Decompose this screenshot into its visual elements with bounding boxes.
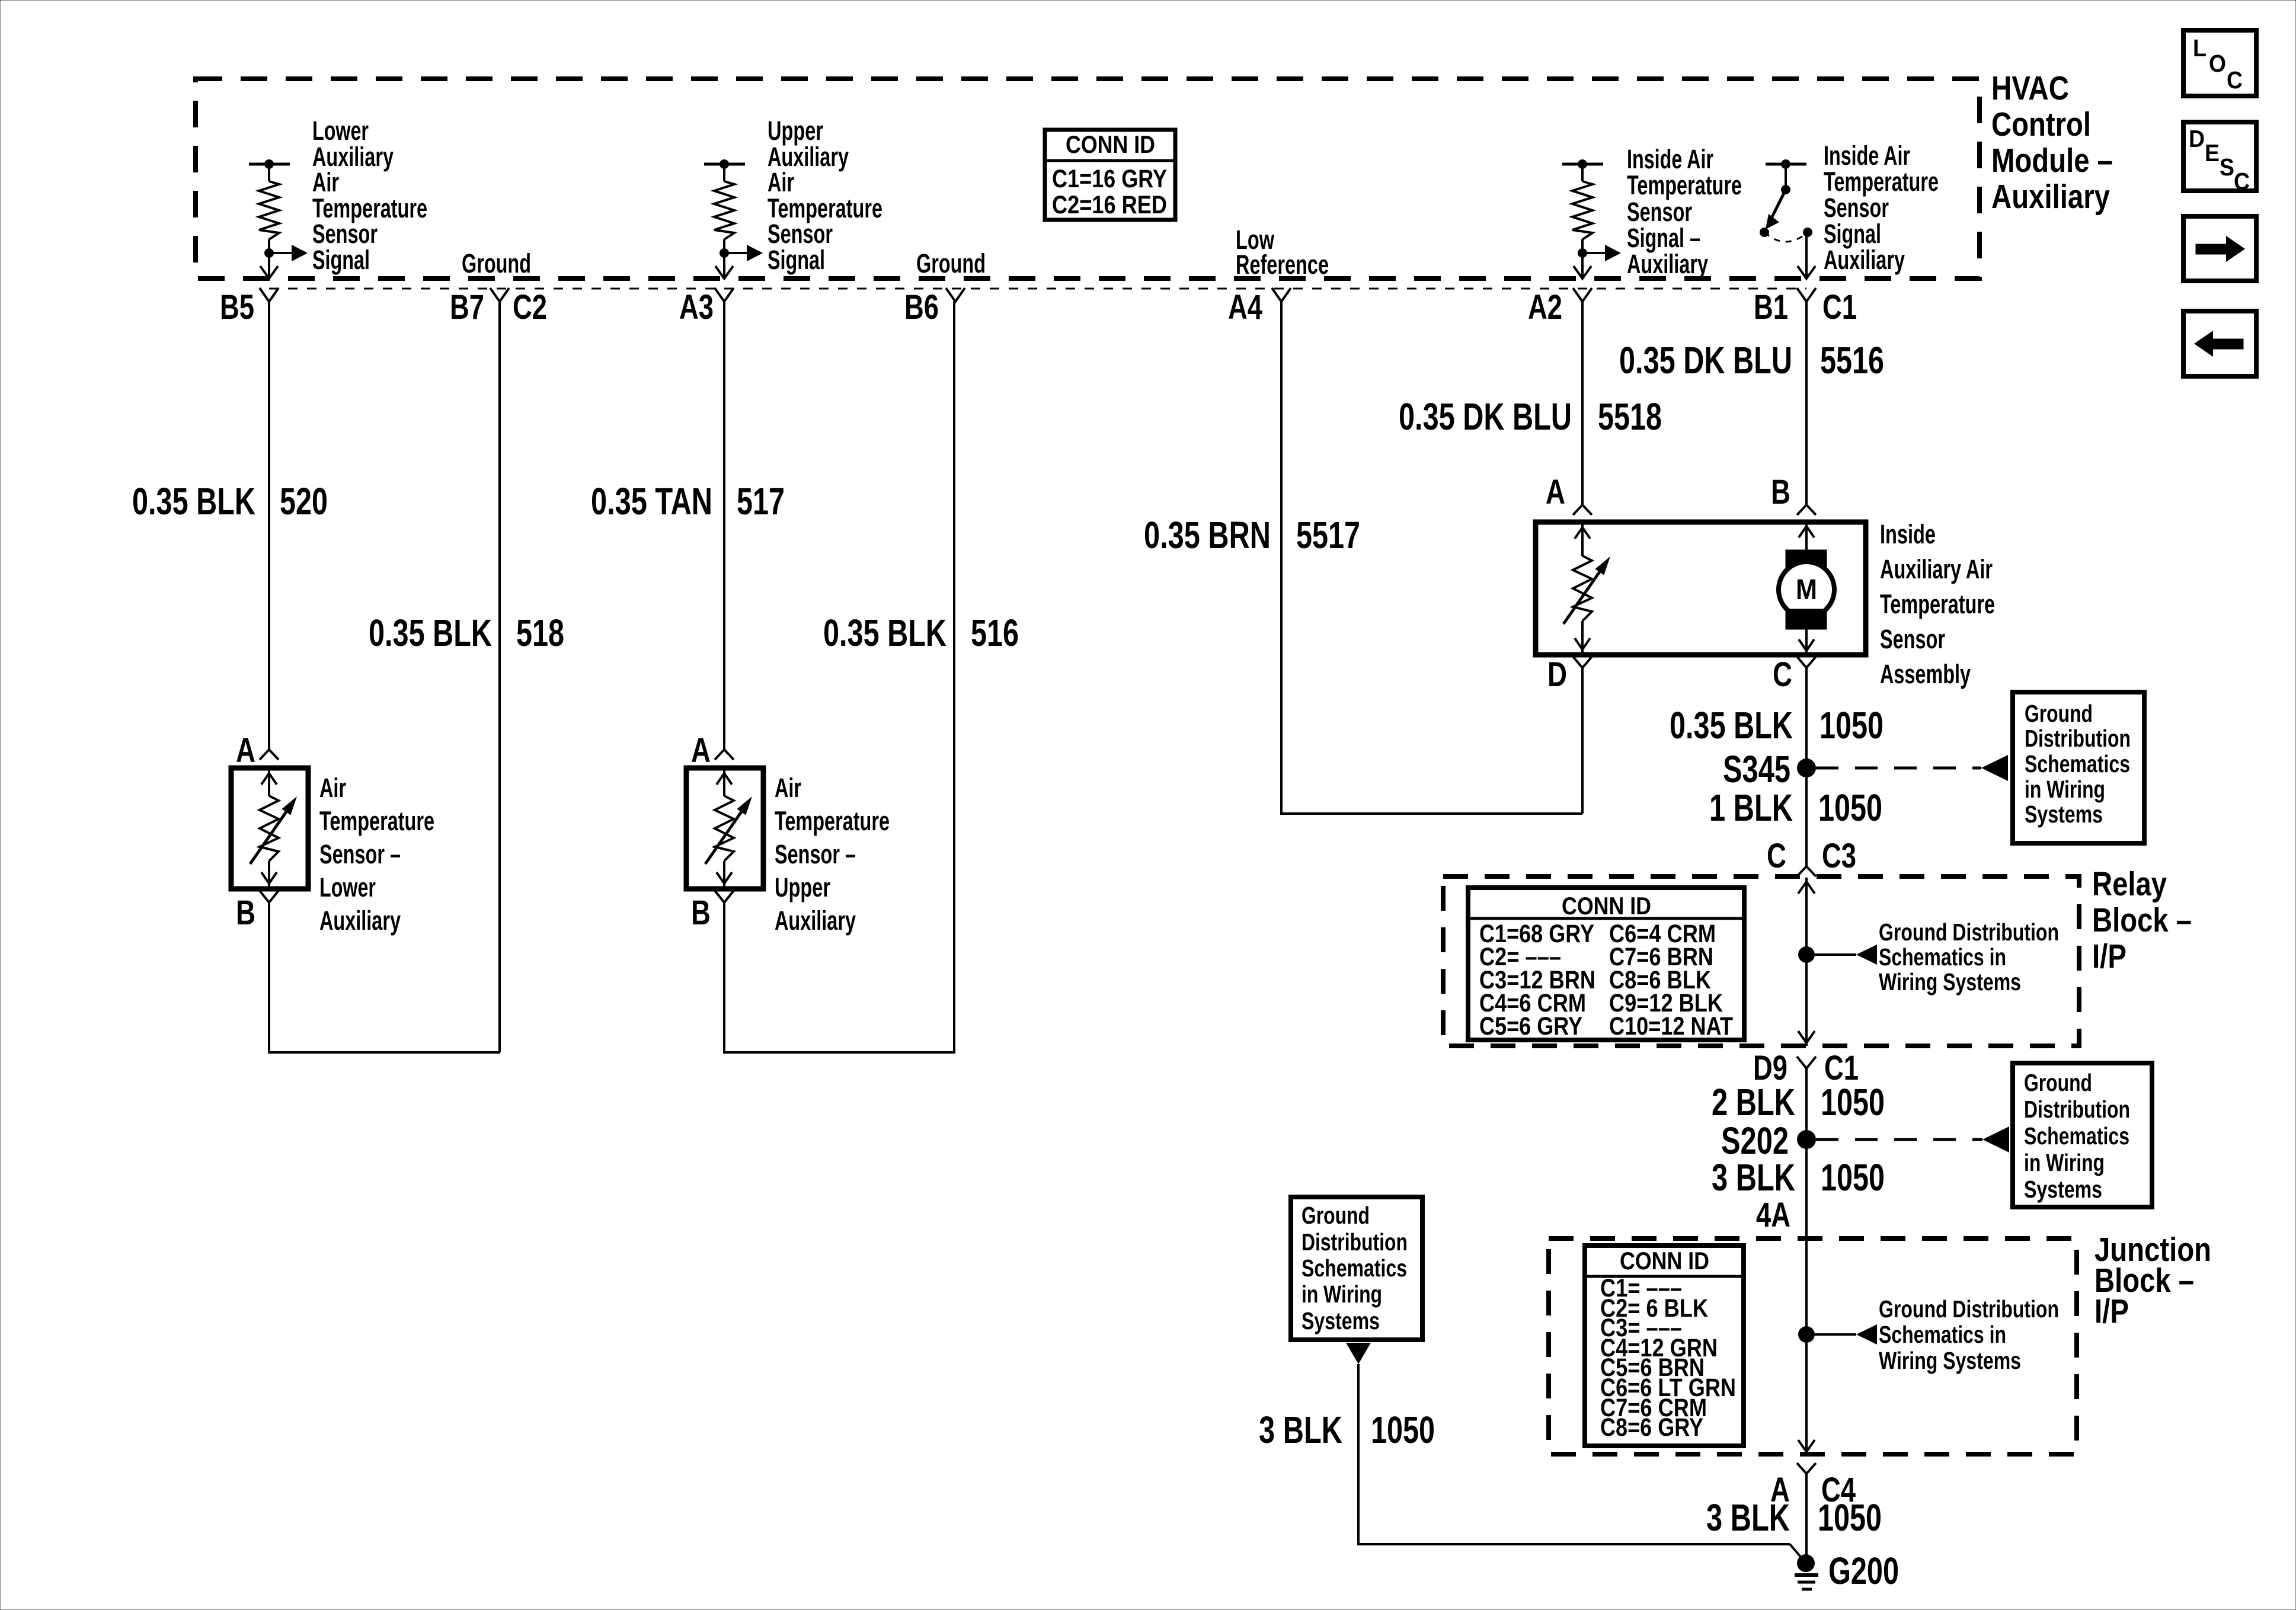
svg-text:1050: 1050 — [1818, 786, 1882, 829]
svg-text:Relay: Relay — [2092, 865, 2167, 903]
HVAC Control Module - Auxiliary dashed box — [196, 79, 1980, 279]
pin A2 connector — [1573, 288, 1592, 302]
svg-text:Systems: Systems — [2024, 1176, 2102, 1203]
svg-text:B5: B5 — [220, 288, 254, 327]
svg-text:Temperature: Temperature — [319, 806, 434, 836]
svg-text:Inside: Inside — [1880, 519, 1936, 549]
module in-line connector dashed line — [269, 288, 1806, 290]
svg-text:Lower: Lower — [319, 872, 376, 902]
S345 reference triangle — [1981, 755, 2008, 781]
wire through junction block — [1805, 1238, 1808, 1454]
svg-text:0.35 DK BLU: 0.35 DK BLU — [1399, 395, 1572, 438]
wire A3 drop — [723, 301, 725, 750]
pin A4 connector — [1272, 288, 1291, 302]
switch: inside air temp sensor signal auxiliary (pin B1/C1) — [1766, 163, 1806, 166]
S202 dashed reference line — [1816, 1138, 1982, 1141]
branch bottom wire — [1358, 1543, 1790, 1545]
svg-text:HVAC: HVAC — [1991, 69, 2069, 107]
svg-text:Schematics in: Schematics in — [1879, 1321, 2006, 1348]
svg-text:Distribution: Distribution — [1302, 1228, 1408, 1256]
wire junction to ground — [1805, 1474, 1808, 1563]
connector D9/C1 — [1797, 1057, 1816, 1068]
svg-text:Auxiliary: Auxiliary — [319, 905, 401, 936]
svg-text:B: B — [236, 894, 255, 932]
pin B7/C2 connector — [490, 288, 509, 302]
svg-text:Ground Distribution: Ground Distribution — [1879, 918, 2059, 946]
lower loop bottom wire — [269, 1051, 500, 1054]
svg-text:CONN ID: CONN ID — [1066, 130, 1155, 158]
assembly connector A — [1573, 505, 1592, 515]
svg-text:516: 516 — [971, 612, 1019, 654]
svg-text:S345: S345 — [1723, 748, 1790, 790]
wire up to assembly pin D — [1581, 668, 1584, 814]
svg-text:C2: C2 — [513, 288, 547, 327]
pin A3 connector — [715, 288, 734, 302]
svg-text:Auxiliary: Auxiliary — [775, 905, 856, 936]
svg-text:Assembly: Assembly — [1880, 659, 1971, 689]
motor M — [1805, 522, 1808, 550]
svg-text:Wiring Systems: Wiring Systems — [1879, 1347, 2021, 1374]
svg-text:C: C — [1767, 837, 1786, 875]
wire B1/C1 drop — [1805, 301, 1808, 505]
svg-text:Signal: Signal — [312, 245, 370, 275]
low reference bottom wire — [1281, 812, 1582, 815]
svg-text:3 BLK: 3 BLK — [1706, 1496, 1790, 1539]
svg-text:M: M — [1796, 574, 1817, 606]
LOC box — [2183, 30, 2256, 96]
svg-text:G200: G200 — [1828, 1550, 1899, 1592]
forward arrow box — [2183, 216, 2256, 281]
svg-text:Schematics in: Schematics in — [1879, 943, 2006, 971]
inside auxiliary air temperature sensor assembly box — [1536, 522, 1866, 655]
svg-text:5517: 5517 — [1296, 514, 1360, 556]
relay block dashed box — [1443, 876, 2079, 1046]
svg-text:518: 518 — [516, 612, 564, 654]
svg-text:2 BLK: 2 BLK — [1712, 1081, 1795, 1124]
junction block dashed box — [1549, 1238, 2077, 1454]
wire C drop to relay block — [1805, 668, 1808, 866]
resistor: lower aux air temp sensor signal (pin B5) — [249, 163, 290, 166]
svg-text:B: B — [691, 894, 711, 932]
assembly connector D — [1573, 657, 1592, 668]
air temperature sensor - lower auxiliary box — [231, 768, 308, 889]
assembly connector B — [1797, 505, 1816, 515]
CONN ID box (module) — [1045, 130, 1175, 220]
relay CONN ID box — [1468, 888, 1744, 1040]
svg-text:Ground: Ground — [2024, 1069, 2092, 1096]
svg-text:Schematics: Schematics — [2024, 1122, 2129, 1150]
svg-text:B1: B1 — [1754, 288, 1788, 327]
svg-text:Sensor –: Sensor – — [775, 839, 856, 869]
svg-text:C3: C3 — [1822, 837, 1856, 875]
wire up to B6 — [953, 301, 955, 1052]
svg-text:C: C — [2234, 168, 2250, 195]
svg-text:C1: C1 — [1822, 288, 1857, 327]
svg-text:5518: 5518 — [1598, 395, 1662, 438]
air temp sensor lower aux connector A — [260, 750, 279, 760]
wire down from triangle — [1357, 1364, 1360, 1545]
svg-text:Schematics: Schematics — [2025, 750, 2130, 777]
back arrow box — [2183, 311, 2256, 376]
pin B5 connector — [260, 288, 279, 302]
svg-text:CONN ID: CONN ID — [1562, 892, 1651, 920]
svg-text:Ground Distribution: Ground Distribution — [1879, 1295, 2059, 1323]
svg-text:Temperature: Temperature — [1627, 170, 1742, 200]
svg-text:A3: A3 — [679, 288, 714, 327]
svg-text:C2=16 RED: C2=16 RED — [1052, 191, 1167, 219]
wire B5 drop — [268, 301, 270, 750]
svg-text:B6: B6 — [904, 288, 939, 327]
wire from B to ground return — [268, 902, 270, 1054]
svg-text:O: O — [2209, 50, 2226, 77]
svg-text:Distribution: Distribution — [2024, 1096, 2130, 1123]
ground distribution schematics box (S345) — [2013, 692, 2144, 843]
svg-text:0.35 BLK: 0.35 BLK — [132, 480, 255, 523]
svg-text:CONN ID: CONN ID — [1620, 1247, 1709, 1275]
svg-text:Upper: Upper — [775, 872, 830, 902]
svg-text:5516: 5516 — [1820, 339, 1884, 382]
svg-text:Auxiliary: Auxiliary — [1627, 249, 1708, 279]
S345 dashed reference line — [1816, 767, 1981, 770]
diagonal into ground — [1790, 1544, 1804, 1561]
svg-text:A4: A4 — [1228, 288, 1262, 327]
svg-text:A: A — [691, 731, 711, 770]
svg-text:Sensor –: Sensor – — [319, 839, 401, 869]
assembly variable resistor — [1581, 522, 1584, 556]
svg-text:520: 520 — [280, 480, 328, 523]
svg-text:Ground: Ground — [916, 248, 986, 279]
svg-text:C1=16 GRY: C1=16 GRY — [1052, 165, 1167, 193]
svg-text:C: C — [1773, 655, 1792, 694]
air temp sensor upper aux connector A — [715, 750, 734, 760]
upper loop bottom wire — [724, 1051, 955, 1054]
svg-text:0.35 BLK: 0.35 BLK — [823, 612, 946, 654]
svg-text:Distribution: Distribution — [2025, 725, 2131, 752]
svg-text:Auxiliary Air: Auxiliary Air — [1880, 554, 1993, 584]
svg-text:0.35 TAN: 0.35 TAN — [591, 480, 712, 523]
svg-text:A2: A2 — [1528, 288, 1562, 327]
svg-text:Temperature: Temperature — [1880, 589, 1995, 619]
DESC box — [2183, 122, 2256, 191]
svg-text:Systems: Systems — [1302, 1307, 1380, 1334]
svg-text:Reference: Reference — [1236, 249, 1329, 280]
svg-text:Schematics: Schematics — [1302, 1254, 1407, 1282]
assembly connector C — [1797, 657, 1816, 668]
junction block ground distribution tap — [1798, 1326, 1815, 1343]
connector A/C4 — [1797, 1463, 1816, 1474]
svg-text:1 BLK: 1 BLK — [1709, 786, 1793, 829]
svg-text:Ground: Ground — [2025, 700, 2093, 727]
wire relay to junction — [1805, 1068, 1808, 1238]
svg-text:L: L — [2193, 34, 2207, 62]
air temperature sensor - upper auxiliary box — [686, 768, 763, 889]
svg-text:Sensor: Sensor — [1880, 624, 1945, 654]
pin B6 connector — [946, 288, 965, 302]
svg-text:Temperature: Temperature — [775, 806, 890, 836]
svg-text:Module –: Module – — [1991, 142, 2113, 180]
wire A2 drop — [1581, 301, 1584, 505]
ground distribution schematics box (bottom left) — [1291, 1197, 1422, 1340]
svg-text:Block –: Block – — [2092, 901, 2192, 939]
svg-text:Air: Air — [775, 773, 801, 803]
svg-text:C5=6 GRY: C5=6 GRY — [1479, 1012, 1582, 1041]
wire A4 drop — [1280, 301, 1283, 815]
svg-text:4A: 4A — [1756, 1196, 1790, 1234]
resistor: upper aux air temp sensor signal (pin A3) — [704, 163, 745, 166]
svg-text:3 BLK: 3 BLK — [1259, 1409, 1342, 1451]
connector B below upper sensor — [715, 891, 734, 902]
svg-text:0.35 DK BLU: 0.35 DK BLU — [1619, 339, 1792, 382]
svg-text:I/P: I/P — [2092, 937, 2126, 975]
wire up to B7/C2 — [498, 301, 501, 1052]
svg-text:D: D — [1547, 655, 1567, 694]
resistor: inside air temp sensor signal - auxiliary (pin A2) — [1562, 163, 1603, 166]
pin B1/C1 connector — [1797, 288, 1816, 302]
ground distribution schematics box (S202) — [2013, 1063, 2152, 1207]
svg-text:Air: Air — [319, 773, 346, 803]
connector C/C3 symbol — [1797, 866, 1816, 876]
svg-text:Auxiliary: Auxiliary — [1991, 178, 2110, 216]
svg-text:Auxiliary: Auxiliary — [1824, 245, 1905, 275]
svg-text:Control: Control — [1991, 105, 2091, 143]
svg-text:0.35 BLK: 0.35 BLK — [369, 612, 492, 654]
svg-text:in Wiring: in Wiring — [1302, 1281, 1382, 1308]
junction CONN ID box — [1585, 1246, 1744, 1446]
svg-text:in Wiring: in Wiring — [2024, 1149, 2105, 1176]
relay block ground distribution tap — [1798, 946, 1815, 963]
triangle below box — [1346, 1343, 1371, 1364]
svg-text:A: A — [236, 731, 255, 770]
svg-text:Wiring Systems: Wiring Systems — [1879, 968, 2021, 996]
connector B below lower sensor — [260, 891, 279, 902]
svg-text:I/P: I/P — [2094, 1292, 2129, 1330]
wire through relay block — [1805, 878, 1808, 1046]
svg-text:0.35 BLK: 0.35 BLK — [1670, 704, 1793, 747]
svg-text:1050: 1050 — [1371, 1409, 1435, 1451]
svg-text:1050: 1050 — [1821, 1156, 1885, 1199]
svg-text:C10=12 NAT: C10=12 NAT — [1609, 1012, 1733, 1041]
svg-text:C: C — [2227, 66, 2243, 94]
svg-text:A: A — [1546, 473, 1565, 511]
svg-text:D: D — [2189, 125, 2205, 152]
svg-text:517: 517 — [737, 480, 785, 523]
svg-text:3 BLK: 3 BLK — [1712, 1156, 1795, 1199]
svg-text:E: E — [2205, 139, 2220, 167]
svg-text:Ground: Ground — [462, 248, 531, 279]
svg-text:0.35 BRN: 0.35 BRN — [1144, 514, 1271, 556]
svg-text:1050: 1050 — [1819, 704, 1884, 747]
svg-text:Systems: Systems — [2025, 801, 2103, 828]
svg-text:1050: 1050 — [1818, 1496, 1882, 1539]
svg-text:S: S — [2220, 153, 2234, 181]
svg-text:1050: 1050 — [1821, 1081, 1885, 1124]
svg-text:Signal: Signal — [768, 245, 825, 275]
svg-text:B: B — [1771, 473, 1790, 511]
svg-text:in Wiring: in Wiring — [2025, 776, 2105, 803]
svg-text:C8=6 GRY: C8=6 GRY — [1600, 1413, 1703, 1442]
ground G200 symbol — [1797, 1554, 1815, 1572]
svg-text:Ground: Ground — [1302, 1202, 1370, 1229]
svg-text:B7: B7 — [450, 288, 484, 327]
wire from B to ground return upper — [723, 902, 725, 1054]
